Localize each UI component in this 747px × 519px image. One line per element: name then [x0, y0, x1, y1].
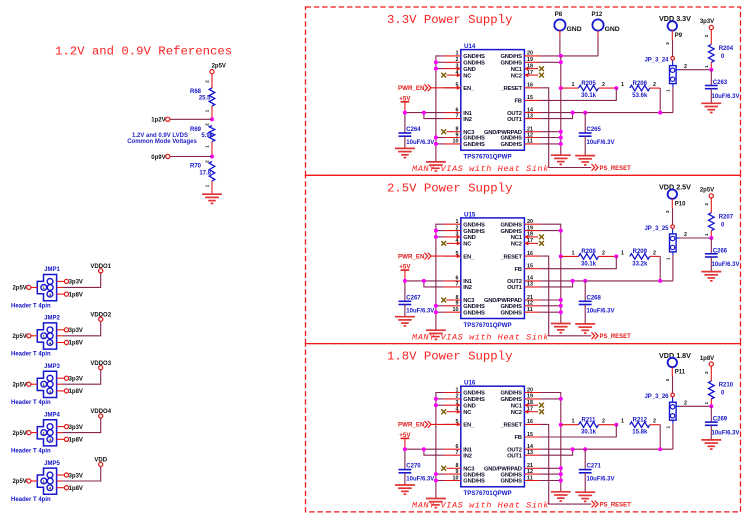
- svg-text:FB: FB: [514, 99, 521, 105]
- svg-text:GND/HS: GND/HS: [463, 142, 485, 148]
- svg-text:3p3V: 3p3V: [69, 280, 83, 286]
- wire RESET to PS_RESET port: [541, 88, 592, 168]
- svg-text:GND/HS: GND/HS: [500, 391, 522, 397]
- ground (right bus): [551, 324, 571, 333]
- svg-text:1: 1: [204, 145, 210, 148]
- svg-text:1p8V: 1p8V: [700, 356, 714, 362]
- section title 2.5V Power Supply: [387, 181, 512, 195]
- power symbol +5V: [399, 264, 411, 302]
- svg-text:GND/HS: GND/HS: [500, 310, 522, 316]
- svg-text:R206: R206: [633, 81, 648, 87]
- connector P12 GND: [592, 12, 620, 56]
- dashed section box 3.3V Power Supply: [306, 7, 741, 175]
- wire PWR_EN to EN pin: [431, 423, 461, 425]
- net label 2p5V (JMP2): [12, 334, 30, 340]
- svg-text:GND/HS: GND/HS: [500, 222, 522, 228]
- svg-text:3p3V: 3p3V: [700, 19, 714, 25]
- wire FB to divider junction: [541, 88, 617, 100]
- svg-text:3.3V Power Supply: 3.3V Power Supply: [387, 13, 512, 27]
- section title 3.3V Power Supply: [387, 13, 512, 27]
- resistor R212 15.8k: [621, 417, 660, 435]
- wire R212 down to output: [659, 425, 661, 450]
- regulator U16 TPS76701QPWP: [444, 380, 541, 498]
- ground (under C270): [395, 485, 415, 494]
- svg-text:JMP5: JMP5: [44, 461, 60, 467]
- wire ground bus left of chip: [436, 393, 444, 499]
- svg-text:GND/HS: GND/HS: [500, 229, 522, 235]
- svg-text:10uF/6.3V: 10uF/6.3V: [406, 477, 434, 483]
- wire output up to JP_3_24 pin1: [672, 87, 674, 113]
- junction nodes on right bus: [559, 397, 563, 483]
- wire output up to JP_3_26 pin1: [672, 424, 674, 450]
- wire RESET to PS_RESET port: [541, 256, 592, 336]
- svg-text:2: 2: [602, 419, 605, 425]
- wire ground bus left of chip: [436, 56, 444, 162]
- node IN2 branch: [422, 111, 426, 115]
- wire output bus OUT2: [541, 448, 673, 450]
- wire right ground bus: [560, 56, 562, 155]
- net label 2p5V (JMP3): [12, 382, 30, 388]
- svg-text:EN_: EN_: [463, 423, 475, 429]
- svg-text:2p5V: 2p5V: [12, 334, 26, 340]
- regulator U15 TPS76701QPWP: [444, 211, 541, 328]
- svg-text:MANY VIAS with Heat Sink: MANY VIAS with Heat Sink: [412, 332, 549, 342]
- svg-text:1: 1: [204, 184, 210, 187]
- svg-text:Header T 4pin: Header T 4pin: [11, 449, 51, 455]
- svg-text:1p2V: 1p2V: [151, 118, 165, 124]
- wire pin19 to bus: [541, 61, 561, 63]
- svg-text:GND: GND: [567, 26, 582, 33]
- svg-text:JMP4: JMP4: [44, 412, 60, 418]
- wire OUT1 join: [541, 113, 573, 119]
- svg-text:GND/HS: GND/HS: [500, 479, 522, 485]
- net label 2p5V (JMP1): [12, 285, 30, 291]
- svg-text:5.9k: 5.9k: [201, 133, 213, 139]
- node R210/C269: [709, 404, 713, 408]
- capacitor C263 10uF/6.3V: [705, 70, 740, 104]
- svg-text:NC2: NC2: [511, 73, 522, 79]
- svg-text:1: 1: [204, 109, 210, 112]
- svg-text:1: 1: [666, 257, 672, 260]
- capacitor C269 10uF/6.3V: [705, 406, 740, 440]
- svg-text:OUT1: OUT1: [507, 453, 523, 459]
- svg-text:10uF/6.3V: 10uF/6.3V: [712, 94, 740, 100]
- net label VDDO4: [90, 409, 111, 418]
- svg-text:NC1: NC1: [511, 403, 523, 409]
- svg-text:IN2: IN2: [463, 117, 471, 123]
- node R207/C266: [709, 236, 713, 240]
- ground (under C264): [395, 148, 415, 157]
- wire branch to IN2: [424, 449, 444, 455]
- svg-text:JMP2: JMP2: [44, 316, 60, 322]
- svg-text:OUT1: OUT1: [507, 117, 523, 123]
- net label 3p3V (JMP4): [57, 425, 83, 431]
- svg-text:1.8V Power Supply: 1.8V Power Supply: [387, 350, 512, 364]
- svg-text:2p5V: 2p5V: [700, 188, 714, 194]
- ground (under C263): [701, 103, 721, 112]
- wires pins 21/12/11 to bus: [541, 132, 561, 144]
- svg-text:1: 1: [621, 82, 624, 88]
- port PWR_EN: [398, 84, 431, 92]
- svg-text:2: 2: [653, 250, 656, 256]
- svg-text:3p3V: 3p3V: [69, 425, 83, 431]
- wire output bus OUT2: [541, 280, 673, 282]
- resistor R70 17.8: [190, 160, 215, 194]
- svg-text:GND/HS: GND/HS: [463, 229, 485, 235]
- svg-text:C268: C268: [587, 295, 602, 301]
- svg-text:1p8V: 1p8V: [69, 341, 83, 347]
- svg-text:NC: NC: [463, 410, 472, 416]
- svg-text:53.6k: 53.6k: [632, 93, 648, 99]
- wire JMP4 to VDDO4: [57, 418, 101, 433]
- svg-text:GND: GND: [463, 67, 475, 73]
- svg-text:1: 1: [666, 425, 672, 428]
- svg-text:2: 2: [704, 34, 710, 37]
- no-connect X pin 18: [539, 403, 544, 408]
- svg-text:3: 3: [665, 210, 671, 213]
- resistor R205 30.1k: [561, 81, 617, 99]
- svg-text:3: 3: [665, 42, 671, 45]
- svg-text:1p8V: 1p8V: [69, 486, 83, 492]
- power symbol +5V: [399, 432, 411, 470]
- capacitor C268 10uF/6.3V: [579, 281, 615, 324]
- svg-text:R70: R70: [190, 164, 202, 170]
- svg-text:Header T 4pin: Header T 4pin: [11, 400, 51, 406]
- svg-text:2p5V: 2p5V: [12, 431, 26, 437]
- jumper JMP4 (Header T 4pin): [11, 412, 60, 454]
- wire ground bus left of chip: [436, 224, 444, 330]
- wire pin19 to bus: [541, 230, 561, 232]
- svg-text:10uF/6.3V: 10uF/6.3V: [712, 262, 740, 268]
- ground (left bus): [426, 499, 446, 508]
- connector P9: [659, 14, 691, 56]
- net label VDDO2: [90, 312, 111, 321]
- svg-text:30.1k: 30.1k: [581, 430, 597, 436]
- net label 2p5V (reference divider top): [210, 64, 226, 74]
- svg-text:2: 2: [704, 371, 710, 374]
- resistor R69 5.9k: [190, 123, 215, 157]
- svg-text:P12: P12: [592, 12, 603, 18]
- wire FB to divider junction: [541, 256, 617, 268]
- wire JP_3_24 pin2 to output node: [680, 64, 711, 70]
- svg-text:R212: R212: [633, 417, 648, 423]
- svg-text:3p3V: 3p3V: [69, 328, 83, 334]
- svg-text:FB: FB: [514, 435, 521, 441]
- wire 2p5V to JMP3: [31, 383, 37, 385]
- node IN2 branch: [422, 279, 426, 283]
- wire 0p9V: [170, 156, 212, 158]
- svg-text:TPS76701QPWP: TPS76701QPWP: [464, 490, 512, 497]
- no-connect X pin 8: [441, 298, 446, 303]
- wire JP_3_25 pin2 to output node: [680, 232, 711, 238]
- wire branch to IN2: [424, 113, 444, 119]
- svg-text:PWR_EN: PWR_EN: [398, 422, 425, 429]
- net label 3p3V (JMP2): [57, 328, 83, 334]
- svg-text:U15: U15: [464, 211, 476, 218]
- svg-text:_RESET: _RESET: [499, 423, 522, 429]
- resistor R209 33.2k: [621, 249, 660, 267]
- svg-text:1: 1: [572, 250, 575, 256]
- svg-text:10uF/6.3V: 10uF/6.3V: [406, 140, 434, 146]
- svg-text:P10: P10: [675, 201, 686, 207]
- svg-text:2p5V: 2p5V: [212, 64, 226, 70]
- svg-text:GND/HS: GND/HS: [500, 397, 522, 403]
- junction nodes on output bus: [571, 279, 663, 283]
- wire 2p5V to JMP4: [31, 432, 37, 434]
- svg-text:Common Mode Voltages: Common Mode Voltages: [127, 139, 197, 145]
- svg-text:GND/HS: GND/HS: [500, 136, 522, 142]
- resistor R211 30.1k: [561, 417, 617, 435]
- svg-text:17.8: 17.8: [199, 171, 211, 177]
- svg-text:C265: C265: [587, 127, 602, 133]
- ground (under C266): [701, 272, 721, 281]
- svg-text:IN2: IN2: [463, 453, 471, 459]
- svg-text:GND/HS: GND/HS: [463, 54, 485, 60]
- svg-text:R209: R209: [633, 249, 648, 255]
- node pin20 bus: [559, 54, 563, 58]
- no-connect X pin 4: [441, 73, 446, 78]
- svg-text:C266: C266: [713, 248, 728, 254]
- net label VDDO1: [90, 264, 111, 273]
- jumper JP_3_26: [644, 378, 680, 428]
- svg-text:GND/HS: GND/HS: [500, 54, 522, 60]
- svg-text:1: 1: [704, 233, 710, 236]
- svg-text:PS_RESET: PS_RESET: [600, 166, 632, 172]
- svg-text:2: 2: [204, 123, 210, 126]
- svg-text:0p9V: 0p9V: [151, 155, 165, 161]
- svg-text:GND/HS: GND/HS: [500, 304, 522, 310]
- junction nodes on left bus: [434, 397, 438, 483]
- wire right ground bus: [541, 393, 561, 492]
- svg-text:GND/HS: GND/HS: [463, 397, 485, 403]
- svg-text:GND/HS: GND/HS: [500, 61, 522, 67]
- junction nodes on right bus: [559, 229, 563, 315]
- ground (right bus): [551, 492, 571, 501]
- port PWR_EN: [398, 253, 431, 261]
- svg-text:1: 1: [621, 250, 624, 256]
- svg-text:1p8V: 1p8V: [69, 389, 83, 395]
- ground (left bus): [426, 162, 446, 171]
- node 0p9V: [210, 155, 214, 159]
- wires pins 21/12/11 to bus: [541, 468, 561, 480]
- ground (under C269): [701, 440, 721, 449]
- net label 3p3V: [700, 19, 714, 29]
- svg-text:2: 2: [704, 203, 710, 206]
- jumper JMP5 (Header T 4pin): [11, 461, 60, 503]
- no-connect X pin 17: [539, 241, 544, 246]
- wire right ground bus: [541, 224, 561, 323]
- ground (left bus): [426, 330, 446, 339]
- jumper JMP1 (Header T 4pin): [11, 267, 60, 309]
- wire R206 down to output: [659, 88, 661, 113]
- node R208/R209 junction: [614, 254, 618, 258]
- svg-text:GND/HS: GND/HS: [463, 304, 485, 310]
- net label 1p8V (JMP4): [57, 437, 83, 443]
- no-connect X pin 4: [441, 409, 446, 414]
- net label 0p9V: [151, 154, 170, 160]
- resistor R208 30.1k: [561, 249, 617, 267]
- svg-text:PWR_EN: PWR_EN: [398, 85, 425, 92]
- svg-text:TPS76701QPWP: TPS76701QPWP: [464, 154, 512, 161]
- svg-text:25.5: 25.5: [199, 96, 211, 102]
- net label 1p8V (JMP5): [57, 486, 83, 492]
- svg-text:10uF/6.3V: 10uF/6.3V: [712, 430, 740, 436]
- ground (reference divider): [202, 194, 222, 203]
- node R205/R206 junction: [614, 86, 618, 90]
- capacitor C264 10uF/6.3V: [399, 127, 435, 148]
- svg-text:TPS76701QPWP: TPS76701QPWP: [464, 322, 512, 329]
- svg-text:R210: R210: [719, 383, 734, 389]
- no-connect X pin 8: [441, 129, 446, 134]
- node +5V/IN1: [403, 111, 407, 115]
- no-connect X pin 4: [441, 241, 446, 246]
- net label VDD: [94, 458, 107, 467]
- node IN2 branch: [422, 447, 426, 451]
- wire R209 down to output: [659, 256, 661, 281]
- wire 2p5V to R68: [211, 74, 213, 88]
- svg-text:JP_3_24: JP_3_24: [644, 58, 669, 64]
- svg-text:R69: R69: [190, 127, 202, 133]
- svg-text:_RESET: _RESET: [499, 254, 522, 260]
- svg-text:1: 1: [704, 65, 710, 68]
- regulator U14 TPS76701QPWP: [444, 43, 541, 161]
- ground (under C268): [575, 324, 595, 333]
- svg-text:10uF/6.3V: 10uF/6.3V: [587, 308, 615, 314]
- svg-text:2p5V: 2p5V: [12, 479, 26, 485]
- capacitor C267 10uF/6.3V: [399, 295, 435, 316]
- wire JMP3 to VDDO3: [57, 370, 101, 385]
- svg-text:NC1: NC1: [511, 235, 523, 241]
- ground (under C271): [575, 492, 595, 501]
- svg-text:R204: R204: [719, 46, 734, 52]
- svg-text:EN_: EN_: [463, 86, 475, 92]
- jumper JMP2 (Header T 4pin): [11, 316, 60, 358]
- svg-text:2: 2: [602, 82, 605, 88]
- svg-text:NC2: NC2: [511, 410, 522, 416]
- wire FB to divider junction: [541, 425, 617, 437]
- svg-text:2p5V: 2p5V: [12, 286, 26, 292]
- svg-text:10uF/6.3V: 10uF/6.3V: [406, 308, 434, 314]
- svg-text:JMP3: JMP3: [44, 364, 60, 370]
- svg-text:JP_3_25: JP_3_25: [644, 226, 669, 232]
- svg-text:15.8k: 15.8k: [632, 430, 648, 436]
- svg-text:JP_3_26: JP_3_26: [644, 394, 669, 400]
- net label VDDO3: [90, 361, 111, 370]
- wire JP_3_26 pin2 to output node: [680, 400, 711, 406]
- wire 2p5V to JMP1: [31, 286, 37, 288]
- port PWR_EN: [398, 421, 431, 429]
- text MANY VIAS with Heat Sink: [412, 501, 549, 511]
- svg-text:3p3V: 3p3V: [69, 473, 83, 479]
- resistor R207 0: [704, 198, 734, 238]
- ground (right bus): [551, 155, 571, 164]
- junction nodes on right bus: [559, 60, 563, 146]
- svg-text:10uF/6.3V: 10uF/6.3V: [587, 477, 615, 483]
- net label 2p5V (JMP5): [12, 479, 30, 485]
- svg-text:U16: U16: [464, 380, 476, 387]
- svg-text:GND/HS: GND/HS: [463, 136, 485, 142]
- svg-text:GND/HS: GND/HS: [463, 391, 485, 397]
- capacitor C270 10uF/6.3V: [399, 464, 435, 485]
- text MANY VIAS with Heat Sink: [412, 164, 549, 174]
- port PS_RESET: [592, 164, 632, 172]
- jumper JP_3_25: [644, 210, 680, 260]
- svg-text:2: 2: [204, 80, 210, 83]
- connector P8 GND: [554, 12, 581, 56]
- svg-text:3p3V: 3p3V: [69, 377, 83, 383]
- svg-text:2: 2: [684, 232, 687, 238]
- svg-text:EN_: EN_: [463, 254, 475, 260]
- svg-text:1: 1: [572, 82, 575, 88]
- svg-text:OUT1: OUT1: [507, 285, 523, 291]
- svg-text:GND/HS: GND/HS: [463, 479, 485, 485]
- node R211/R212 junction: [614, 423, 618, 427]
- svg-text:R205: R205: [581, 81, 596, 87]
- resistor R206 53.6k: [621, 81, 660, 99]
- net label 3p3V (JMP5): [57, 473, 83, 479]
- svg-text:Header T 4pin: Header T 4pin: [11, 497, 51, 503]
- svg-text:1: 1: [572, 419, 575, 425]
- svg-text:2: 2: [684, 400, 687, 406]
- svg-text:GND/HS: GND/HS: [463, 222, 485, 228]
- svg-text:30.1k: 30.1k: [581, 261, 597, 267]
- wire branch to IN2: [424, 281, 444, 287]
- svg-text:1: 1: [666, 89, 672, 92]
- wires pins 21/12/11 to bus: [541, 300, 561, 312]
- wire JMP2 to VDDO2: [57, 321, 101, 336]
- node 1p2V: [210, 117, 214, 121]
- wire 1p2V: [170, 118, 212, 120]
- connector P11: [659, 351, 691, 393]
- wire 2p5V to JMP5: [31, 480, 37, 482]
- svg-text:GND/HS: GND/HS: [463, 61, 485, 67]
- svg-text:NC1: NC1: [511, 67, 523, 73]
- svg-text:P9: P9: [675, 33, 683, 39]
- no-connect X pin 8: [441, 466, 446, 471]
- jumper JP_3_24: [644, 42, 680, 92]
- no-connect X pin 18: [539, 235, 544, 240]
- connector P10: [659, 183, 691, 225]
- svg-text:GND/HS: GND/HS: [463, 472, 485, 478]
- svg-text:10uF/6.3V: 10uF/6.3V: [587, 140, 615, 146]
- resistor R68 25.5: [190, 80, 215, 119]
- node +5V/IN1: [403, 447, 407, 451]
- svg-text:1.2V and 0.9V References: 1.2V and 0.9V References: [55, 45, 232, 59]
- svg-text:2: 2: [684, 64, 687, 70]
- junction nodes on left bus: [434, 229, 438, 315]
- wire +5V to IN1: [405, 112, 444, 114]
- svg-text:GND: GND: [463, 235, 475, 241]
- svg-text:U14: U14: [464, 43, 476, 50]
- dashed section box 1.8V Power Supply: [306, 344, 741, 512]
- svg-text:1: 1: [621, 419, 624, 425]
- net label 3p3V (JMP1): [57, 279, 83, 285]
- wire +5V to IN1: [405, 448, 444, 450]
- svg-text:NC: NC: [463, 73, 472, 79]
- svg-text:R208: R208: [581, 249, 596, 255]
- wire RESET to PS_RESET port: [541, 424, 592, 504]
- svg-text:1p8V: 1p8V: [69, 438, 83, 444]
- svg-text:GND: GND: [605, 26, 620, 33]
- svg-text:FB: FB: [514, 267, 521, 273]
- svg-text:33.2k: 33.2k: [632, 261, 648, 267]
- svg-text:NC2: NC2: [511, 242, 522, 248]
- power symbol +5V: [399, 95, 411, 133]
- net label 1p8V (JMP3): [57, 389, 83, 395]
- junction nodes on output bus: [571, 447, 663, 451]
- junction nodes on output bus: [571, 111, 663, 115]
- svg-text:C269: C269: [713, 417, 728, 423]
